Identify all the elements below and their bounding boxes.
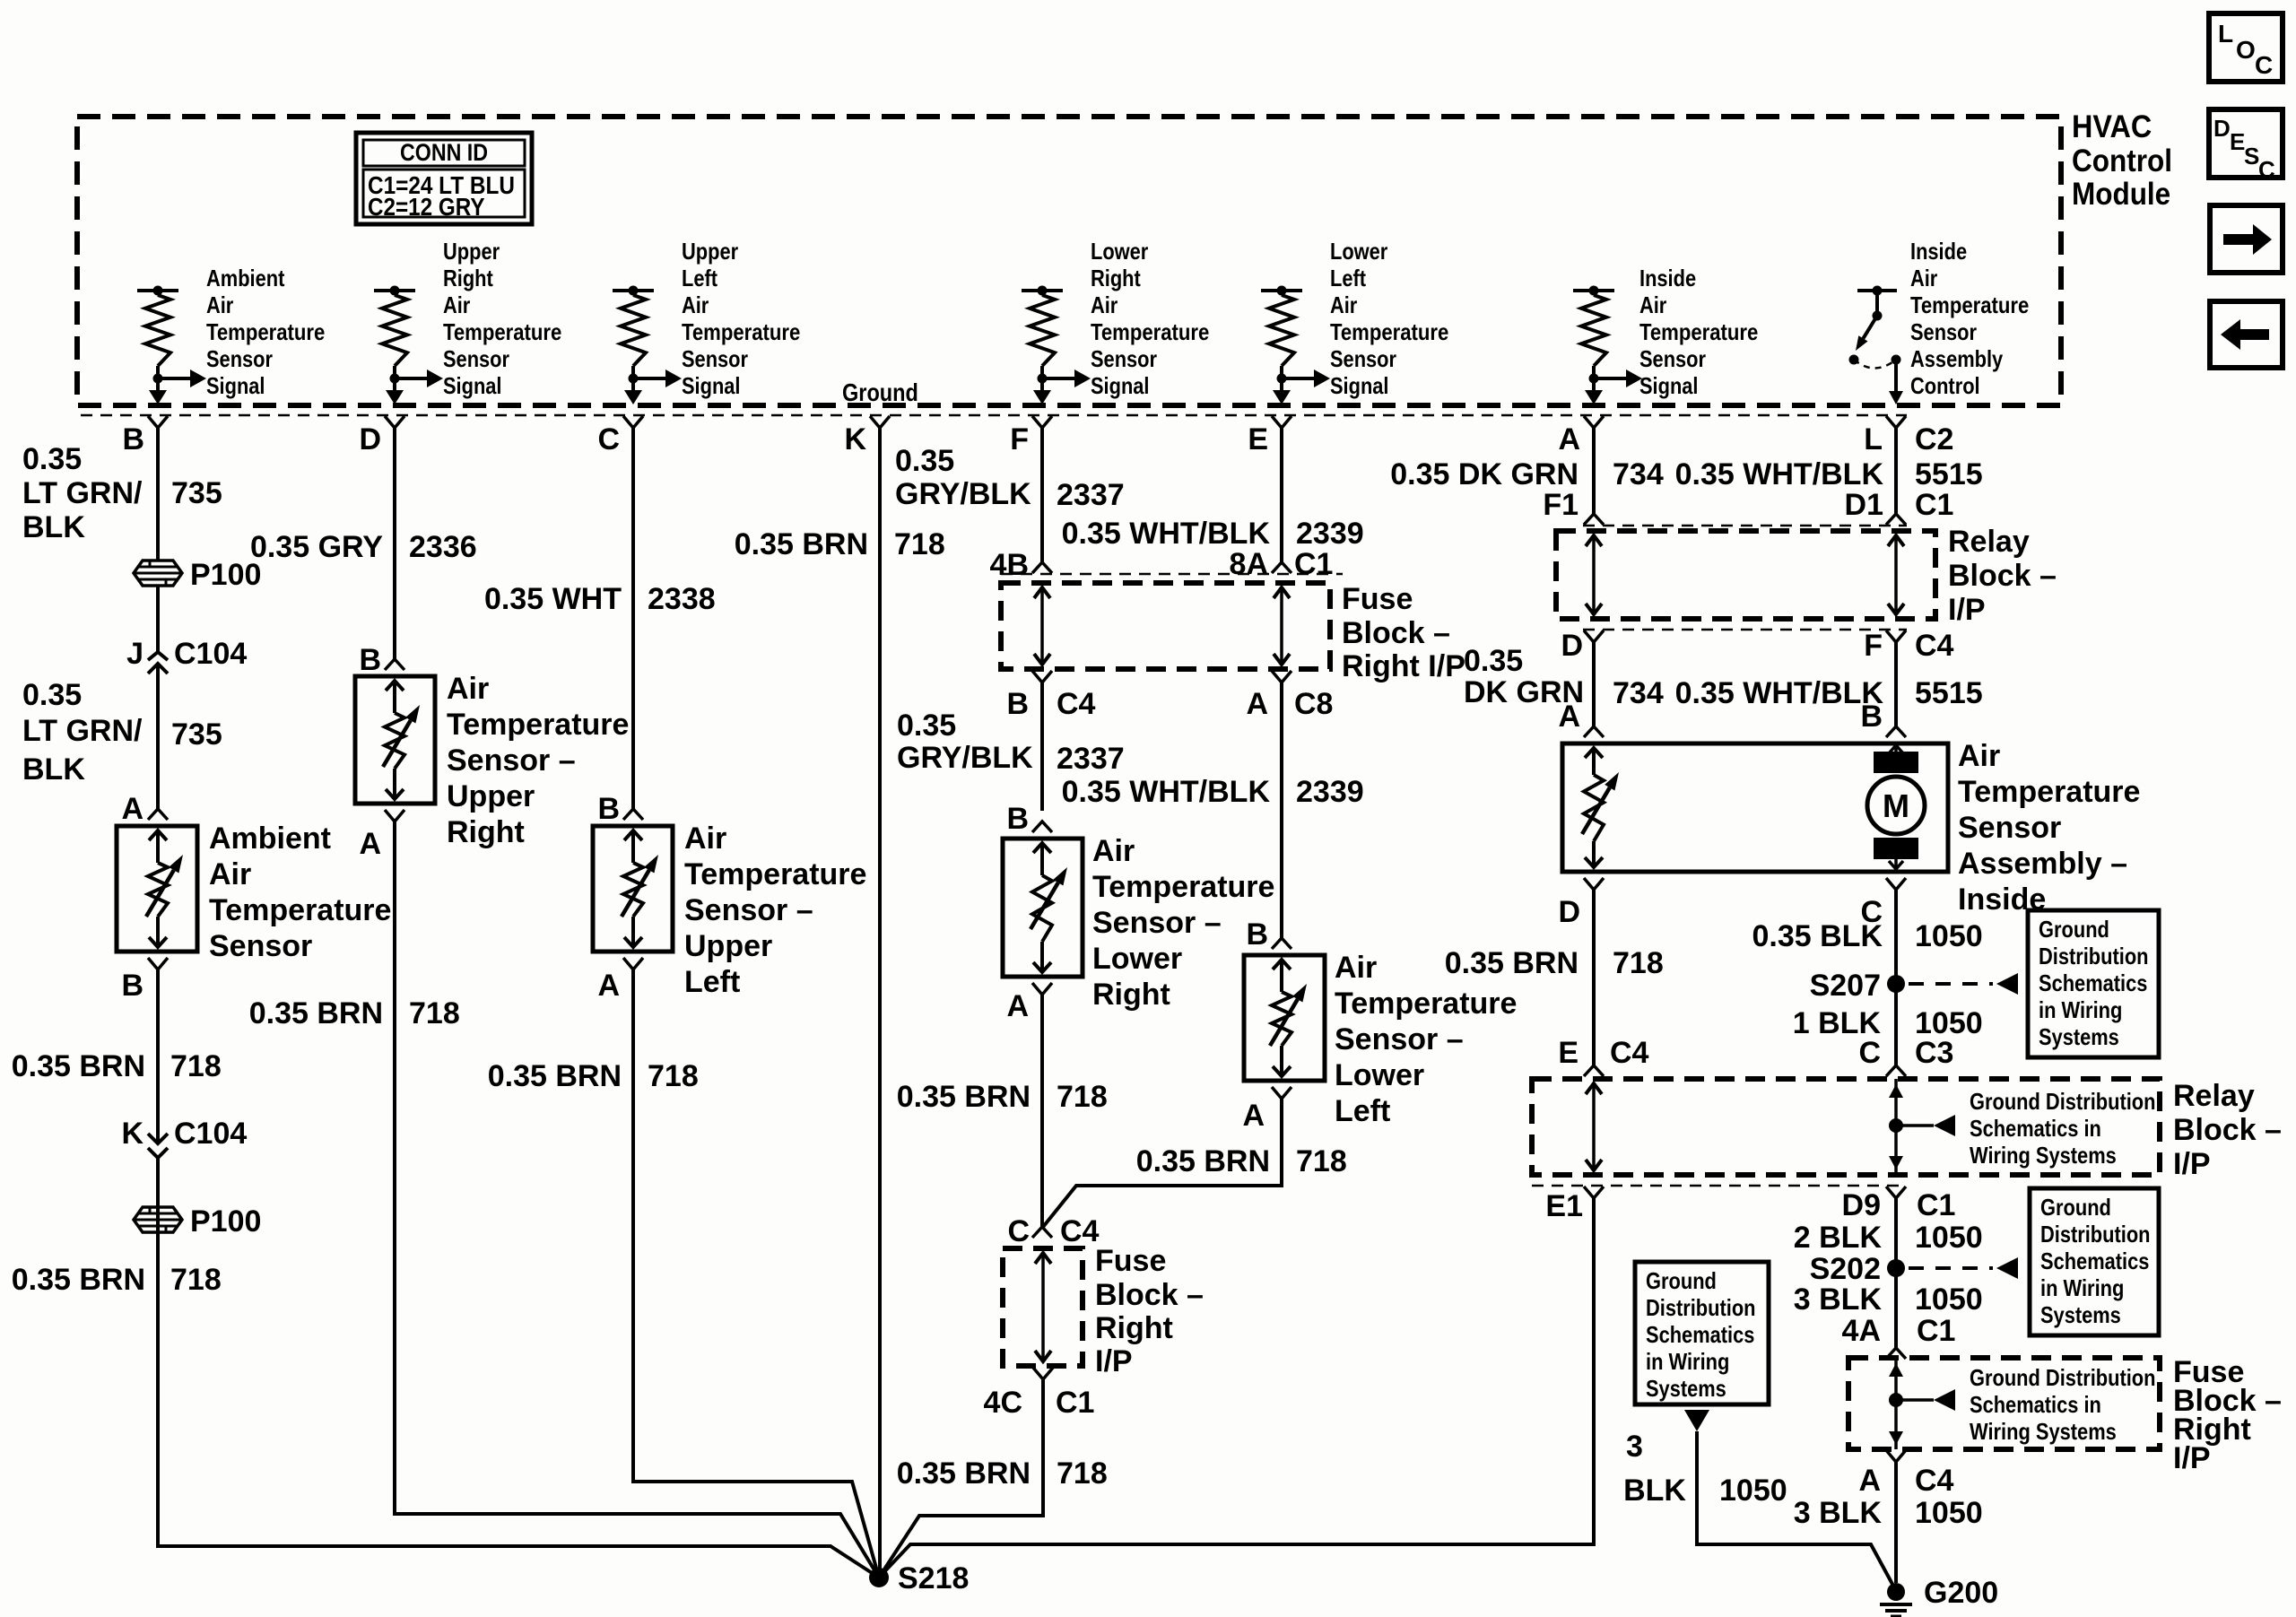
svg-text:Right: Right [1095, 1311, 1173, 1345]
svg-text:3: 3 [1626, 1430, 1643, 1464]
svg-text:C: C [1858, 1036, 1881, 1070]
wire ground distribution box to G200 [1697, 1431, 1894, 1587]
svg-text:2 BLK: 2 BLK [1794, 1221, 1883, 1255]
svg-text:Temperature: Temperature [206, 318, 325, 345]
svg-text:in Wiring: in Wiring [1646, 1348, 1729, 1375]
lower right sensor pin A [1006, 983, 1052, 1023]
upper left sensor pin A [597, 958, 643, 1003]
svg-text:Lower: Lower [1091, 238, 1148, 265]
svg-text:A: A [1246, 687, 1268, 721]
svg-text:5515: 5515 [1915, 457, 1983, 491]
wire pin A down [1592, 428, 1596, 514]
chevron pin F1 [1584, 514, 1604, 525]
CONN ID table [356, 133, 532, 224]
resistor upper right air temperature sensor signal (module pin D) [374, 238, 561, 404]
svg-text:Block –: Block – [1342, 616, 1450, 650]
ground distribution schematics box (S202) [2030, 1188, 2159, 1335]
svg-text:Temperature: Temperature [1910, 291, 2029, 318]
air temperature sensor - upper right box [355, 672, 629, 849]
svg-text:Air: Air [1910, 265, 1937, 291]
svg-text:0.35: 0.35 [895, 444, 954, 478]
inline connector J C104 [126, 637, 247, 681]
svg-text:Air: Air [684, 822, 726, 856]
svg-text:A: A [597, 969, 620, 1003]
wire label 0.35 BRN 718 (upper left) [488, 1059, 699, 1093]
svg-text:Upper: Upper [447, 779, 535, 813]
svg-text:1050: 1050 [1915, 1282, 1983, 1317]
svg-text:Wiring Systems: Wiring Systems [1970, 1418, 2117, 1445]
svg-text:Signal: Signal [206, 372, 265, 399]
wire label 0.35 GRY 2336 [250, 530, 477, 564]
wire label 2 BLK 1050 [1794, 1221, 1983, 1255]
svg-text:Temperature: Temperature [443, 318, 561, 345]
svg-text:Schematics: Schematics [2039, 969, 2147, 996]
fuse block - right i/p dashed box (lower middle) [1003, 1248, 1083, 1366]
upper right sensor pin B [359, 643, 404, 677]
svg-text:Left: Left [1330, 265, 1366, 291]
svg-text:Signal: Signal [682, 372, 741, 399]
svg-text:Air: Air [209, 857, 251, 891]
svg-text:Temperature: Temperature [1639, 318, 1758, 345]
LOC legend box [2209, 13, 2283, 82]
relay block - i/p dashed box (upper) [1556, 531, 1935, 619]
svg-text:4A: 4A [1842, 1314, 1881, 1348]
fuse block - right i/p dashed box (upper) [1001, 583, 1330, 669]
svg-text:Ambient: Ambient [209, 822, 331, 856]
svg-text:735: 735 [171, 717, 222, 752]
motor M inside assembly [1867, 743, 1925, 872]
svg-text:S202: S202 [1810, 1252, 1881, 1286]
svg-text:4C: 4C [984, 1386, 1022, 1420]
wire label 3 BLK 1050 (bottom) [1794, 1496, 1983, 1530]
svg-text:LT GRN/: LT GRN/ [22, 476, 143, 510]
svg-text:Relay: Relay [1948, 525, 2030, 559]
svg-text:0.35 BRN: 0.35 BRN [897, 1080, 1031, 1114]
svg-text:Block –: Block – [1948, 559, 2057, 593]
svg-text:3 BLK: 3 BLK [1794, 1496, 1883, 1530]
fuse block C1 thin dashed connector line [1001, 573, 1343, 576]
svg-text:C4: C4 [1057, 687, 1096, 721]
svg-text:A: A [1558, 422, 1580, 456]
svg-text:Ground: Ground [1646, 1267, 1717, 1294]
svg-text:2338: 2338 [648, 582, 716, 616]
svg-text:A: A [1006, 989, 1029, 1023]
wire label 0.35 BLK 1050 [1752, 919, 1983, 953]
svg-text:Air: Air [1639, 291, 1666, 318]
svg-text:Ground Distribution: Ground Distribution [1970, 1364, 2156, 1391]
svg-text:Distribution: Distribution [2040, 1221, 2151, 1248]
svg-text:B: B [1006, 687, 1029, 721]
svg-text:2339: 2339 [1296, 775, 1364, 809]
chevron pin 4B [1032, 562, 1052, 573]
svg-text:C3: C3 [1915, 1036, 1953, 1070]
relay block 2 input pins E C4 / C C3 [1558, 1036, 1953, 1076]
svg-text:Air: Air [1092, 834, 1135, 868]
relay block C1 thin dashed connector line [1583, 525, 1907, 527]
svg-text:Temperature: Temperature [209, 893, 391, 927]
fuse3 ground wire with junction [1889, 1358, 2156, 1449]
svg-text:0.35 BRN: 0.35 BRN [12, 1049, 145, 1083]
svg-text:Schematics: Schematics [2040, 1248, 2149, 1274]
module pin D connector fork [359, 416, 404, 456]
svg-text:Lower: Lower [1092, 942, 1182, 976]
HVAC Control Module dashed box [77, 117, 2061, 405]
switch: inside air temperature sensor assembly control (module pin L) [1849, 238, 2030, 404]
inline connector K C104 [121, 1117, 247, 1158]
svg-text:Signal: Signal [1639, 372, 1699, 399]
svg-text:Sensor: Sensor [682, 345, 748, 372]
svg-text:Assembly –: Assembly – [1958, 847, 2127, 881]
relay output forks D / F C4 [1561, 629, 1953, 663]
wire label 0.35 WHT/BLK 2339 (lower) [1062, 775, 1364, 809]
svg-text:Sensor –: Sensor – [447, 743, 576, 778]
wire label 0.35 BRN 718 (lower left) [1136, 1144, 1347, 1178]
svg-text:C1: C1 [1917, 1314, 1955, 1348]
module connector C1/C2 thin dashed line [81, 414, 1907, 417]
resistor ambient air temperature sensor signal (module pin B) [137, 265, 325, 404]
svg-text:Inside: Inside [1639, 265, 1696, 291]
svg-text:J: J [126, 637, 143, 671]
svg-text:Temperature: Temperature [1958, 775, 2140, 809]
wire label 0.35 LT GRN/BLK 735 (upper) [22, 442, 222, 544]
svg-text:718: 718 [648, 1059, 699, 1093]
svg-text:Ground: Ground [2040, 1194, 2111, 1221]
svg-text:Air: Air [443, 291, 470, 318]
wire label 1 BLK 1050 [1793, 1006, 1983, 1040]
svg-text:Fuse: Fuse [1342, 582, 1413, 616]
relay block - i/p label (lower) [2173, 1079, 2282, 1181]
svg-text:C1: C1 [1915, 488, 1953, 522]
svg-text:Wiring Systems: Wiring Systems [1970, 1142, 2117, 1169]
svg-text:C104: C104 [174, 1117, 247, 1151]
svg-text:Temperature: Temperature [684, 857, 866, 891]
svg-text:718: 718 [1613, 946, 1664, 980]
wire label 0.35 BRN 718 (bottom left) [12, 1263, 222, 1297]
svg-text:Sensor –: Sensor – [684, 893, 813, 927]
svg-text:0.35 BRN: 0.35 BRN [735, 527, 868, 561]
svg-text:Sensor: Sensor [206, 345, 273, 372]
chevron pin D1 [1886, 514, 1906, 525]
svg-text:D: D [1558, 895, 1580, 929]
resistor upper left air temperature sensor signal (module pin C) [613, 238, 800, 404]
svg-text:S: S [2244, 143, 2259, 170]
svg-text:P100: P100 [190, 1204, 261, 1239]
air temperature sensor - upper left box [593, 822, 866, 999]
fuse block - right i/p label (bottom right) [2173, 1355, 2282, 1475]
wire label 0.35 LT GRN/BLK 735 (lower) [22, 678, 222, 787]
fuse3 output pin A C4 [1858, 1450, 1953, 1498]
svg-text:0.35: 0.35 [897, 709, 956, 743]
svg-text:Block –: Block – [2173, 1113, 2282, 1147]
svg-text:B: B [1246, 917, 1268, 952]
svg-text:Air: Air [447, 672, 489, 706]
svg-text:C104: C104 [174, 637, 247, 671]
wire label 0.35 BRN 718 (ground wire) [735, 527, 945, 561]
wire E1 to S218 [879, 1198, 1594, 1578]
assembly pins A / B [1558, 700, 1906, 737]
svg-text:Left: Left [1335, 1094, 1390, 1128]
wire S207 to relay block pin C [1894, 890, 1898, 1065]
svg-text:Ground Distribution: Ground Distribution [1970, 1088, 2156, 1115]
svg-text:Assembly: Assembly [1910, 345, 2004, 372]
module pin K connector fork [844, 416, 890, 456]
svg-text:0.35 BRN: 0.35 BRN [488, 1059, 622, 1093]
svg-text:D: D [359, 422, 381, 456]
svg-text:Distribution: Distribution [1646, 1294, 1756, 1321]
svg-text:D1: D1 [1845, 488, 1883, 522]
wire fuse block to S218 [879, 1379, 1043, 1578]
relay2 ground wire with junction [1889, 1079, 2156, 1175]
svg-text:Lower: Lower [1330, 238, 1387, 265]
svg-text:Sensor: Sensor [1910, 318, 1977, 345]
svg-text:E1: E1 [1545, 1189, 1583, 1223]
wire label 0.35 WHT/BLK 2339 (upper) [1062, 517, 1364, 551]
air temperature sensor assembly - inside box [1562, 743, 1948, 872]
air temperature sensor - lower right box [1003, 834, 1274, 1012]
svg-text:Air: Air [1091, 291, 1118, 318]
splice S218 [869, 1561, 969, 1595]
svg-text:0.35: 0.35 [22, 442, 82, 476]
lower left sensor pin B [1246, 917, 1291, 952]
module pin A connector fork [1558, 416, 1604, 456]
svg-text:718: 718 [170, 1049, 222, 1083]
svg-text:C4: C4 [1915, 629, 1954, 663]
svg-text:Temperature: Temperature [1335, 987, 1517, 1021]
wire label 0.35 BRN 718 (upper right) [249, 996, 460, 1030]
svg-text:Control: Control [1910, 372, 1980, 399]
svg-text:0.35 BRN: 0.35 BRN [1445, 946, 1578, 980]
upper left sensor pin B [597, 792, 643, 826]
wire label 0.35 BRN 718 (assembly D) [1445, 946, 1664, 980]
svg-text:C1: C1 [1294, 547, 1333, 581]
module pin F connector fork [1010, 416, 1052, 456]
svg-text:E: E [2230, 128, 2245, 155]
ambient sensor pin B [121, 958, 168, 1003]
svg-text:Air: Air [1958, 739, 2000, 773]
ambient sensor pin A [121, 792, 168, 826]
svg-text:I/P: I/P [2173, 1441, 2211, 1475]
svg-text:Signal: Signal [1330, 372, 1389, 399]
svg-text:Temperature: Temperature [1091, 318, 1209, 345]
svg-text:0.35 BRN: 0.35 BRN [249, 996, 383, 1030]
svg-text:Schematics: Schematics [1646, 1321, 1754, 1348]
svg-text:0.35 GRY: 0.35 GRY [250, 530, 383, 564]
svg-text:C4: C4 [1060, 1214, 1100, 1248]
svg-text:C8: C8 [1294, 687, 1333, 721]
svg-text:Lower: Lower [1335, 1058, 1424, 1092]
svg-text:B: B [122, 422, 144, 456]
svg-text:F1: F1 [1543, 488, 1578, 522]
svg-text:L: L [2218, 20, 2233, 48]
chevron pin 8A [1272, 562, 1291, 573]
svg-text:Temperature: Temperature [447, 708, 629, 742]
svg-text:C: C [2255, 51, 2273, 79]
svg-text:C: C [1007, 1214, 1030, 1248]
svg-text:LT GRN/: LT GRN/ [22, 714, 143, 748]
svg-text:Right I/P: Right I/P [1342, 649, 1465, 683]
svg-text:Left: Left [682, 265, 717, 291]
relay block - i/p label (upper) [1948, 525, 2057, 627]
svg-text:D: D [2213, 115, 2231, 142]
module pin B connector fork [122, 416, 168, 456]
relay block - i/p dashed box (lower) [1532, 1079, 2160, 1175]
svg-text:HVAC: HVAC [2072, 109, 2152, 144]
svg-text:Sensor: Sensor [209, 929, 312, 963]
svg-text:Sensor –: Sensor – [1092, 906, 1222, 940]
ground wire K to S218 [878, 428, 882, 1578]
svg-text:Module: Module [2072, 177, 2170, 212]
svg-text:Relay: Relay [2173, 1079, 2255, 1113]
svg-text:Upper: Upper [684, 929, 772, 963]
svg-text:C: C [597, 422, 620, 456]
svg-text:Right: Right [447, 815, 525, 849]
wire pin C down [631, 428, 635, 809]
svg-text:C4: C4 [1610, 1036, 1649, 1070]
svg-text:0.35 WHT/BLK: 0.35 WHT/BLK [1062, 517, 1271, 551]
svg-text:2336: 2336 [409, 530, 477, 564]
wire relay F to assembly pin B [1894, 642, 1898, 726]
svg-text:Right: Right [443, 265, 493, 291]
wire upper left sensor to S218 [633, 969, 879, 1578]
wire pin L down [1894, 428, 1898, 514]
svg-text:4B: 4B [990, 548, 1029, 582]
svg-text:C1: C1 [1917, 1188, 1955, 1222]
svg-text:Air: Air [1335, 951, 1377, 985]
svg-text:Sensor: Sensor [443, 345, 509, 372]
svg-text:734: 734 [1613, 676, 1664, 710]
assembly pins D / C [1558, 878, 1906, 929]
wire label 0.35 DK GRN 734 (upper) [1390, 457, 1664, 491]
svg-text:L: L [1864, 422, 1883, 456]
svg-text:K: K [844, 422, 866, 456]
svg-text:Systems: Systems [2040, 1301, 2121, 1328]
fuse block 3 input pin 4A C1 [1842, 1314, 1956, 1359]
svg-text:Signal: Signal [1091, 372, 1150, 399]
air temperature sensor - lower left box [1244, 951, 1517, 1128]
grommet P100 (lower) [134, 1204, 261, 1239]
svg-text:0.35: 0.35 [22, 678, 82, 712]
wire label 0.35 DK GRN 734 (lower) [1464, 644, 1664, 710]
svg-text:0.35: 0.35 [1464, 644, 1523, 678]
svg-text:I/P: I/P [1948, 593, 1986, 627]
wire label 0.35 BRN 718 (above K C104) [12, 1049, 222, 1083]
svg-text:0.35 WHT/BLK: 0.35 WHT/BLK [1062, 775, 1271, 809]
svg-text:Schematics in: Schematics in [1970, 1391, 2101, 1418]
svg-text:B: B [597, 792, 620, 826]
svg-text:C2=12 GRY: C2=12 GRY [368, 193, 485, 221]
wire label 0.35 BRN 718 (lower right) [897, 1080, 1108, 1114]
svg-text:5515: 5515 [1915, 676, 1983, 710]
fuse block - right i/p label (upper) [1342, 582, 1465, 683]
svg-text:0.35 BRN: 0.35 BRN [897, 1456, 1031, 1491]
svg-text:in Wiring: in Wiring [2040, 1274, 2124, 1301]
wire label 0.35 WHT/BLK 5515 (lower) [1675, 676, 1983, 710]
svg-text:3 BLK: 3 BLK [1794, 1282, 1883, 1317]
svg-text:Schematics in: Schematics in [1970, 1115, 2101, 1142]
svg-text:0.35 DK GRN: 0.35 DK GRN [1390, 457, 1578, 491]
svg-text:718: 718 [1057, 1456, 1108, 1491]
wire relay D to assembly pin A [1592, 642, 1596, 726]
fuse block output pin 4C C1 [984, 1368, 1095, 1420]
svg-text:735: 735 [171, 476, 222, 510]
svg-text:E: E [1248, 422, 1268, 456]
connector pin C C4 [1007, 1214, 1099, 1248]
wire assembly D to relay block pin E [1592, 890, 1596, 1065]
svg-text:B: B [1006, 802, 1029, 836]
svg-text:2337: 2337 [1057, 742, 1125, 776]
svg-text:Upper: Upper [443, 238, 500, 265]
svg-text:A: A [121, 792, 143, 826]
svg-text:Fuse: Fuse [1095, 1244, 1166, 1278]
module pin C connector fork [597, 416, 643, 456]
svg-text:B: B [1860, 700, 1883, 734]
wire label 0.35 GRY/BLK 2337 (lower) [897, 709, 1125, 776]
svg-text:F: F [1864, 629, 1883, 663]
relay2 output forks E1 / D9 C1 [1545, 1187, 1955, 1223]
svg-text:D: D [1561, 629, 1583, 663]
svg-text:C2: C2 [1915, 422, 1953, 456]
lower right sensor pin B [1006, 802, 1052, 836]
svg-text:Sensor: Sensor [1958, 811, 2061, 845]
svg-text:Sensor: Sensor [1330, 345, 1396, 372]
svg-text:1050: 1050 [1915, 1496, 1983, 1530]
wire fuse3 to G200 [1894, 1462, 1898, 1583]
wire label 3 BLK 1050 (left of G200) [1623, 1430, 1787, 1508]
svg-text:Upper: Upper [682, 238, 738, 265]
resistor lower left air temperature sensor signal (module pin E) [1261, 238, 1448, 404]
svg-text:0.35 BLK: 0.35 BLK [1752, 919, 1883, 953]
svg-text:0.35 BRN: 0.35 BRN [12, 1263, 145, 1297]
wire label 0.35 WHT/BLK 5515 (upper) [1675, 457, 1983, 491]
svg-text:I/P: I/P [2173, 1147, 2211, 1181]
svg-text:Temperature: Temperature [682, 318, 800, 345]
ground distribution schematics box (left solid) [1635, 1262, 1769, 1431]
svg-text:CONN ID: CONN ID [400, 139, 488, 166]
svg-text:A: A [1858, 1464, 1881, 1498]
wire fuse block to lower right sensor [1040, 682, 1044, 811]
svg-text:BLK: BLK [22, 510, 85, 544]
ground distribution schematics box (S207) [2028, 910, 2159, 1057]
svg-text:Right: Right [1092, 978, 1170, 1012]
svg-text:0.35 WHT/BLK: 0.35 WHT/BLK [1675, 676, 1884, 710]
wire lower right sensor down to fuse block C4 pin C [1040, 995, 1044, 1227]
svg-text:I/P: I/P [1095, 1344, 1133, 1378]
upper right sensor pin A [359, 810, 404, 861]
svg-text:G200: G200 [1924, 1576, 1998, 1610]
svg-text:718: 718 [1296, 1144, 1347, 1178]
svg-text:0.35 WHT/BLK: 0.35 WHT/BLK [1675, 457, 1884, 491]
svg-text:B: B [359, 643, 381, 677]
svg-text:Inside: Inside [1910, 238, 1967, 265]
svg-text:Control: Control [2072, 143, 2172, 178]
svg-text:F: F [1010, 422, 1029, 456]
wire label 0.35 BRN 718 (bottom middle) [897, 1456, 1108, 1491]
svg-text:734: 734 [1613, 457, 1664, 491]
svg-text:718: 718 [1057, 1080, 1108, 1114]
svg-text:8A: 8A [1230, 547, 1268, 581]
svg-text:Sensor: Sensor [1091, 345, 1157, 372]
resistor lower right air temperature sensor signal (module pin F) [1022, 238, 1209, 404]
svg-text:1050: 1050 [1915, 1221, 1983, 1255]
module pin L connector fork [1864, 416, 1906, 456]
relay block output thin dashed line [1583, 629, 1907, 631]
wire fuse block A C8 down to lower left sensor [1280, 682, 1283, 938]
svg-text:S207: S207 [1810, 969, 1881, 1003]
HVAC Control Module label [2072, 109, 2172, 212]
connector pins F1 / D1 C1 [1543, 488, 1953, 522]
svg-text:0.35 WHT: 0.35 WHT [484, 582, 622, 616]
resistor inside air temperature sensor signal (module pin A) [1573, 265, 1758, 404]
